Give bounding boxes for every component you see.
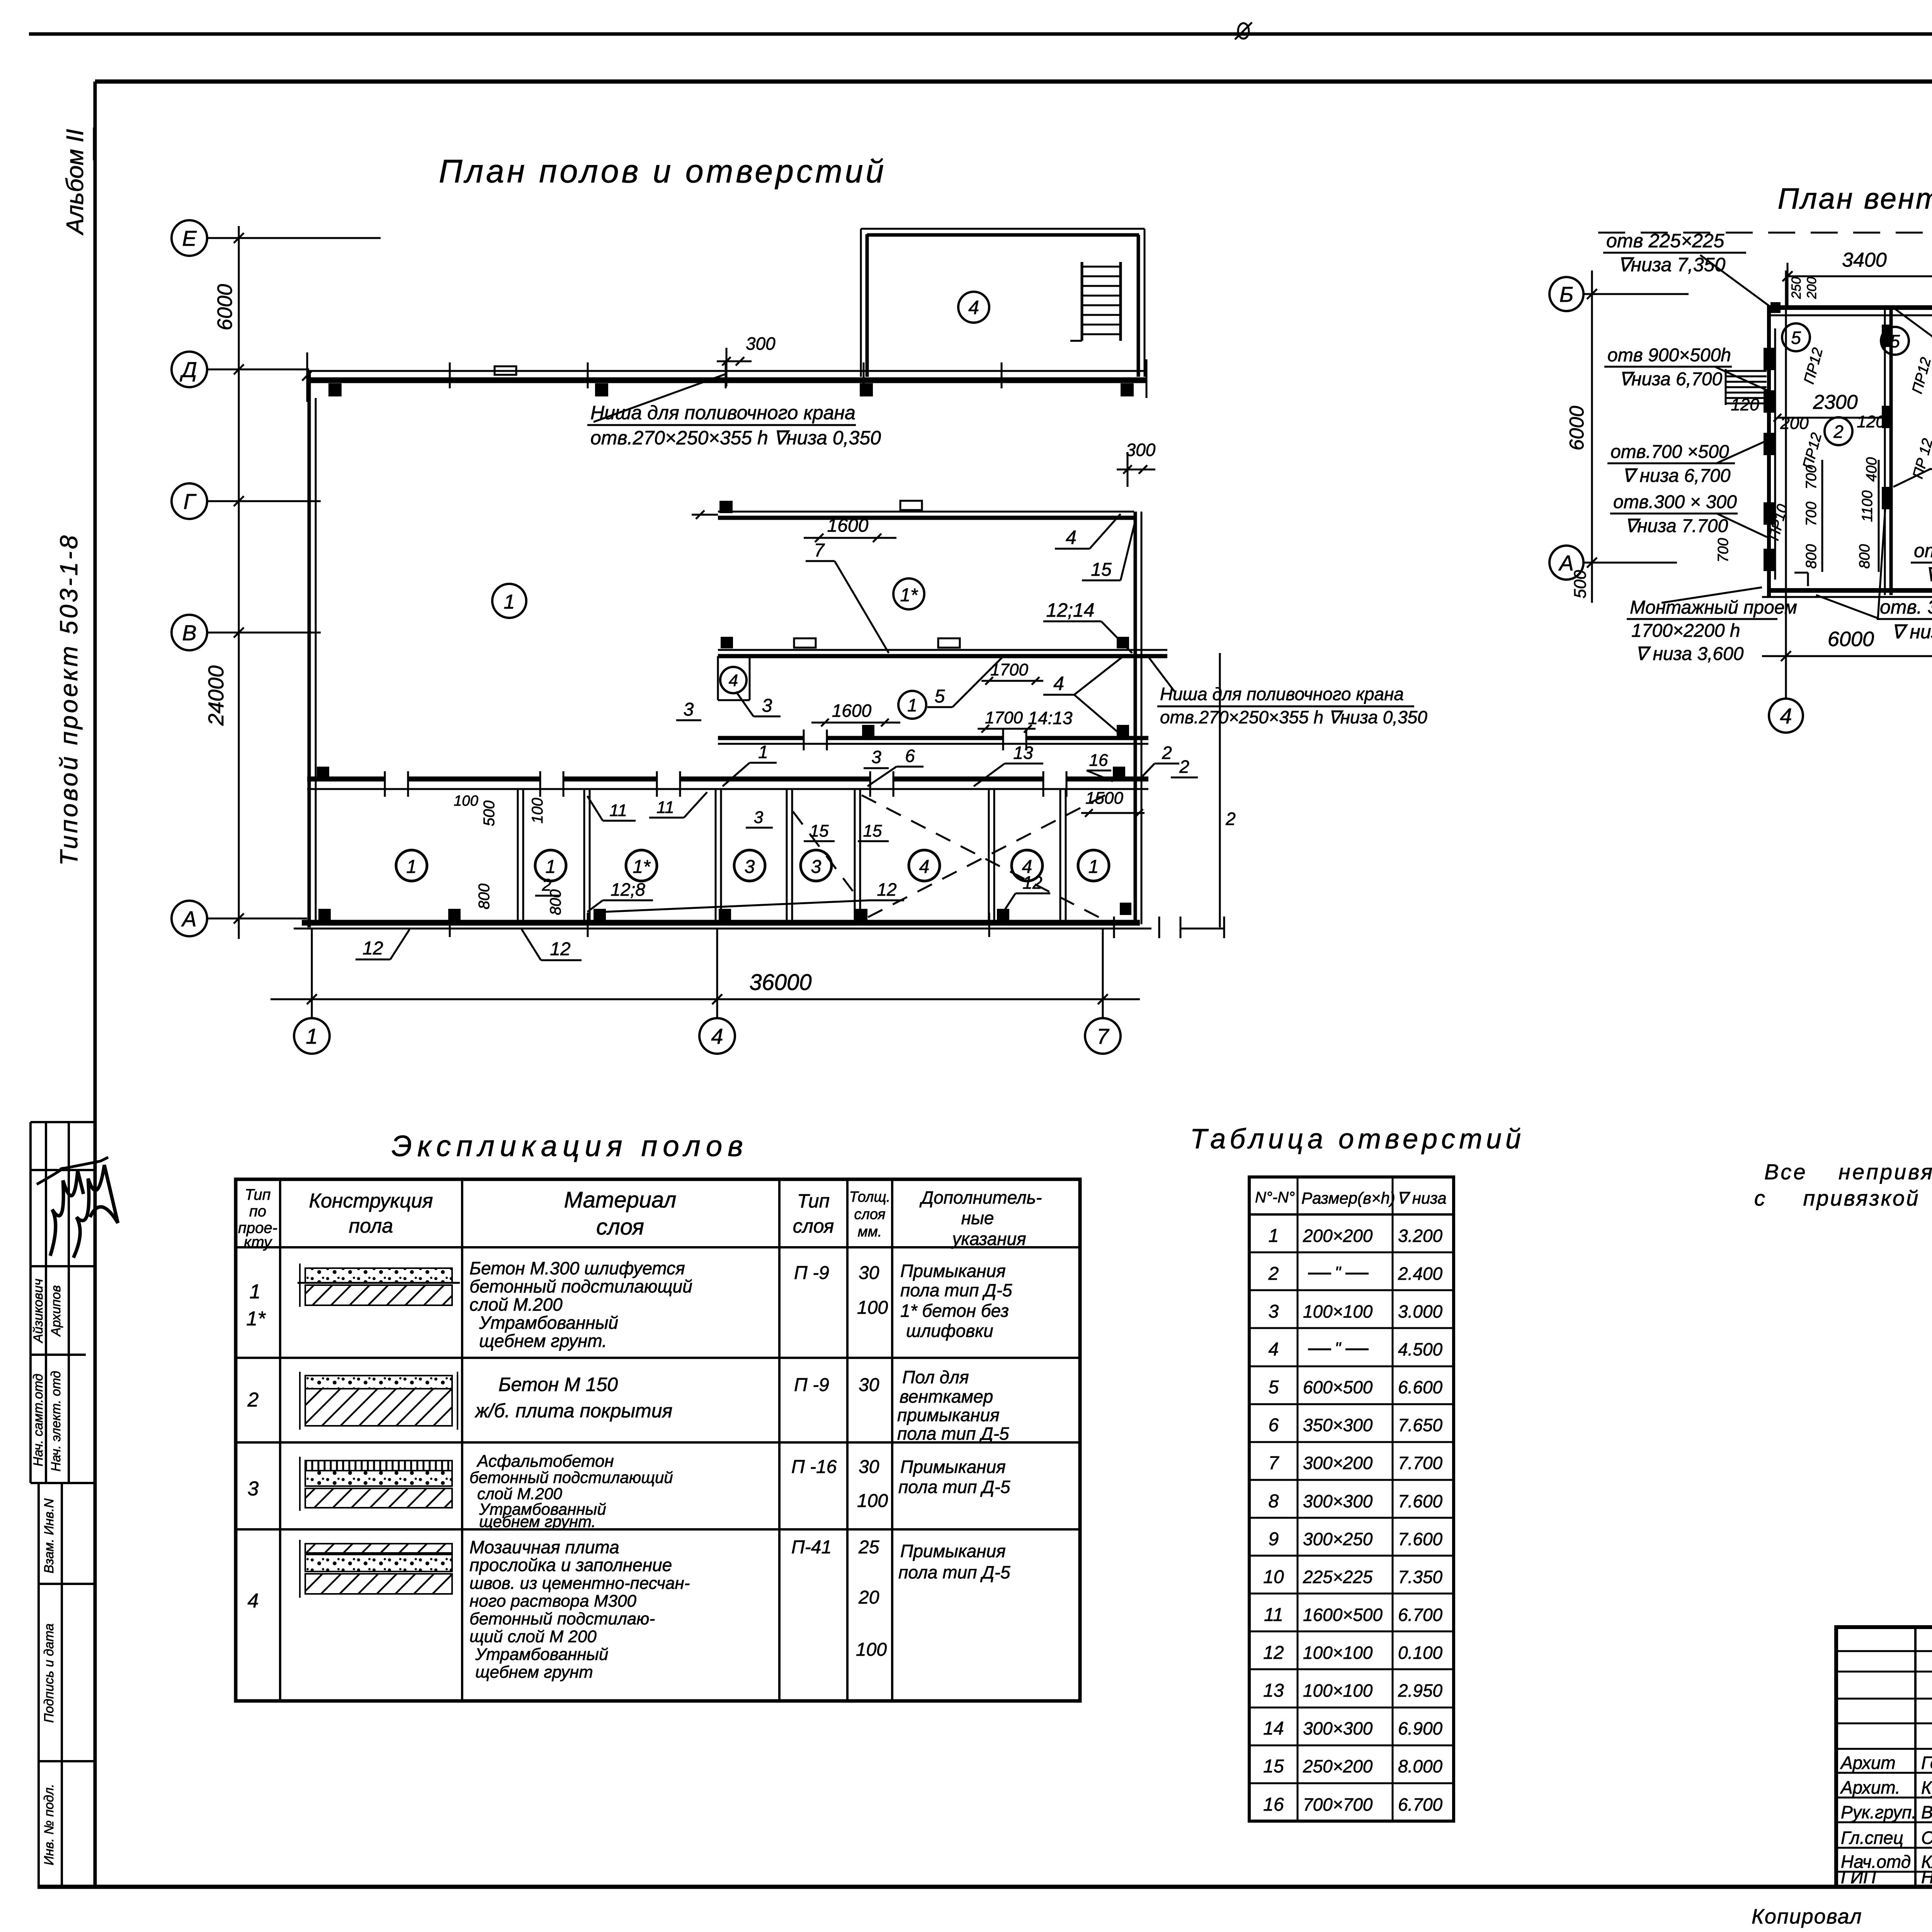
svg-text:щебнем грунт.: щебнем грунт.	[479, 1512, 596, 1531]
svg-text:30: 30	[859, 1375, 879, 1395]
svg-text:Дополнитель-: Дополнитель-	[919, 1187, 1042, 1207]
svg-text:100: 100	[857, 1491, 888, 1511]
svg-text:100: 100	[856, 1639, 887, 1660]
svg-text:100×100: 100×100	[1303, 1301, 1373, 1321]
louver/stairs hatch left	[1726, 370, 1767, 372]
svg-text:4: 4	[1269, 1339, 1279, 1360]
svg-text:Д: Д	[179, 357, 197, 382]
svg-text:Инв. № подл.: Инв. № подл.	[42, 1784, 56, 1866]
svg-text:Рук.груп.: Рук.груп.	[1841, 1802, 1917, 1822]
svg-text:6000: 6000	[1566, 406, 1588, 451]
svg-text:700: 700	[1715, 538, 1731, 562]
wall left along axis 1	[308, 372, 311, 927]
svg-text:Утрамбованный: Утрамбованный	[479, 1313, 618, 1333]
explication table frame	[236, 1179, 1080, 1701]
svg-text:300×300: 300×300	[1303, 1491, 1373, 1511]
vent vertical dim line	[1591, 270, 1593, 603]
A wall right extension segments	[1180, 928, 1224, 930]
svg-text:24000: 24000	[204, 665, 228, 726]
svg-text:П -9: П -9	[794, 1263, 829, 1283]
svg-text:2.950: 2.950	[1398, 1680, 1443, 1701]
svg-text:прослойка и заполнение: прослойка и заполнение	[469, 1555, 672, 1575]
svg-text:250: 250	[1789, 277, 1804, 299]
svg-text:4.500: 4.500	[1398, 1339, 1443, 1359]
svg-text:∇ низа: ∇ низа	[1397, 1189, 1447, 1207]
svg-text:пола тип Д-5: пола тип Д-5	[897, 1423, 1009, 1444]
svg-text:Типовой проект 503-1-8: Типовой проект 503-1-8	[55, 533, 83, 866]
svg-text:2: 2	[1179, 757, 1189, 777]
5 circles	[1782, 323, 1810, 351]
svg-text:7: 7	[1269, 1453, 1280, 1473]
sheet top border line	[29, 32, 1932, 36]
svg-text:отв.270×250×355 h ∇низа 0,350: отв.270×250×355 h ∇низа 0,350	[590, 427, 881, 449]
vent axis 4	[1769, 699, 1803, 733]
svg-text:4: 4	[711, 1024, 723, 1048]
svg-text:∇ низа 7.600: ∇ низа 7.600	[1891, 621, 1932, 643]
svg-text:отв. 350 ×300h: отв. 350 ×300h	[1880, 596, 1932, 618]
svg-text:ʺ: ʺ	[1335, 1263, 1342, 1282]
svg-text:венткамер: венткамер	[900, 1386, 993, 1406]
axis Д	[172, 352, 207, 387]
svg-text:1*: 1*	[246, 1308, 266, 1330]
svg-text:Пол для: Пол для	[902, 1367, 969, 1387]
wall axis А	[302, 920, 1140, 926]
svg-text:7.650: 7.650	[1398, 1415, 1443, 1435]
main frame bottom	[37, 1885, 1932, 1889]
svg-text:16: 16	[1089, 751, 1108, 770]
svg-text:12: 12	[1022, 872, 1042, 893]
svg-text:Бетон М 150: Бетон М 150	[498, 1374, 618, 1395]
svg-text:7: 7	[814, 540, 825, 561]
svg-text:3: 3	[248, 1478, 259, 1500]
svg-text:Ниша для поливочного крана: Ниша для поливочного крана	[590, 402, 855, 423]
svg-text:300×300: 300×300	[1303, 1718, 1373, 1738]
axis В	[172, 615, 207, 650]
svg-text:швов. из цементно-песчан-: швов. из цементно-песчан-	[469, 1574, 690, 1593]
svg-text:Все непривязанные проемы и отв: Все непривязанные проемы и отверстия счи…	[1764, 1160, 1932, 1184]
wall axis Г	[718, 511, 1134, 513]
svg-text:Курочкин: Курочкин	[1921, 1777, 1932, 1798]
svg-text:∇низа 7,350: ∇низа 7,350	[1618, 254, 1725, 276]
svg-text:30: 30	[859, 1457, 879, 1477]
room 4 enclosure top right	[860, 229, 862, 377]
svg-text:Б: Б	[1560, 282, 1573, 306]
vertical dimension line left	[238, 226, 240, 939]
svg-text:Архит.: Архит.	[1840, 1777, 1900, 1798]
svg-text:Примыкания: Примыкания	[900, 1457, 1006, 1477]
svg-text:Г: Г	[184, 489, 197, 514]
room 4 label circle	[958, 292, 989, 323]
svg-text:9: 9	[1269, 1529, 1279, 1549]
svg-text:4: 4	[919, 857, 930, 877]
svg-text:слоя: слоя	[596, 1214, 644, 1240]
svg-text:11: 11	[1264, 1605, 1283, 1625]
svg-text:15: 15	[1091, 560, 1112, 580]
holes table frame	[1249, 1177, 1454, 1821]
svg-text:7: 7	[1097, 1024, 1109, 1048]
svg-text:3: 3	[871, 747, 881, 767]
svg-text:П -9: П -9	[794, 1375, 829, 1395]
svg-text:2: 2	[1225, 809, 1236, 829]
svg-text:100: 100	[454, 793, 478, 809]
svg-text:4: 4	[1780, 704, 1792, 728]
svg-text:120: 120	[1857, 412, 1885, 431]
room 1* circle	[893, 578, 924, 609]
svg-text:1* бетон без: 1* бетон без	[900, 1301, 1009, 1321]
svg-text:В: В	[182, 621, 196, 645]
svg-text:5: 5	[1269, 1377, 1279, 1398]
dashed diagonals	[862, 795, 1105, 920]
svg-text:15: 15	[1263, 1756, 1284, 1777]
svg-text:6000: 6000	[213, 284, 236, 330]
title block outer	[1836, 1627, 1932, 1887]
svg-text:ГИП: ГИП	[1841, 1867, 1876, 1887]
svg-text:∇низа 7.700: ∇низа 7.700	[1625, 516, 1728, 536]
svg-text:Альбом II: Альбом II	[62, 129, 88, 236]
svg-text:Тип: Тип	[797, 1190, 830, 1212]
svg-text:300: 300	[746, 333, 776, 354]
ladder symbol	[1081, 262, 1083, 341]
main frame top	[95, 80, 1932, 84]
svg-text:8.000: 8.000	[1398, 1756, 1443, 1776]
svg-text:8: 8	[1269, 1491, 1279, 1512]
svg-text:12: 12	[877, 879, 896, 900]
svg-text:с привязкой „100“ от ближайшей: с привязкой „100“ от ближайшей стены или…	[1754, 1186, 1932, 1210]
svg-text:отв 225×225: отв 225×225	[1606, 230, 1725, 252]
svg-text:3: 3	[684, 699, 694, 720]
svg-text:12: 12	[362, 938, 383, 959]
svg-text:слоя: слоя	[854, 1206, 885, 1223]
svg-text:∇низа 7,275: ∇низа 7,275	[1925, 564, 1932, 585]
svg-text:слоя: слоя	[793, 1215, 834, 1237]
svg-text:30: 30	[859, 1263, 879, 1283]
svg-text:по: по	[249, 1203, 266, 1220]
svg-text:14:13: 14:13	[1028, 708, 1073, 728]
svg-text:Взам. Инв.N: Взам. Инв.N	[42, 1498, 56, 1573]
svg-text:Копировал: Копировал	[1752, 1905, 1862, 1928]
vent dim small lines	[1821, 460, 1823, 572]
svg-text:бетонный подстилающий: бетонный подстилающий	[469, 1276, 692, 1296]
svg-text:2: 2	[542, 876, 551, 895]
svg-text:15: 15	[810, 821, 829, 840]
svg-text:Подпись и дата: Подпись и дата	[42, 1623, 56, 1723]
svg-text:6.900: 6.900	[1398, 1718, 1443, 1738]
small room 4 circle	[720, 667, 747, 693]
right end wall	[1134, 512, 1137, 924]
svg-text:300×200: 300×200	[1303, 1453, 1373, 1473]
svg-text:Материал: Материал	[564, 1187, 677, 1213]
svg-text:пола тип Д-5: пола тип Д-5	[898, 1562, 1010, 1582]
svg-text:пола тип Д-5: пола тип Д-5	[900, 1280, 1012, 1300]
svg-text:ные: ные	[961, 1208, 994, 1228]
svg-text:Нач. элект. отд: Нач. элект. отд	[49, 1371, 63, 1472]
svg-text:отв.270×250×355 h ∇низа 0,350: отв.270×250×355 h ∇низа 0,350	[1160, 707, 1427, 727]
svg-text:3: 3	[1269, 1301, 1279, 1322]
svg-text:План полов и отверстий: План полов и отверстий	[439, 153, 886, 189]
svg-text:указания: указания	[951, 1229, 1026, 1249]
columns on room row wall	[317, 767, 329, 779]
svg-text:Айзикович: Айзикович	[31, 1279, 46, 1344]
svg-text:36000: 36000	[749, 970, 811, 995]
svg-text:Конструкция: Конструкция	[309, 1190, 433, 1212]
vent interior wall	[1884, 309, 1886, 595]
vent top wall	[1767, 305, 1932, 310]
svg-text:Ниша для поливочного крана: Ниша для поливочного крана	[1160, 684, 1404, 704]
title block signature table	[1914, 1627, 1917, 1887]
svg-text:Таблица отверстий: Таблица отверстий	[1190, 1124, 1525, 1155]
svg-text:200: 200	[1804, 277, 1819, 299]
svg-text:Монтажный проем: Монтажный проем	[1630, 597, 1797, 618]
margin signatures squiggles	[50, 1171, 83, 1256]
svg-text:щий слой М 200: щий слой М 200	[469, 1627, 597, 1646]
wall axis Д	[307, 370, 1146, 372]
margin stamp group: Взам/Подпись/Инв	[37, 1483, 40, 1887]
svg-text:ж/б. плита покрытия: ж/б. плита покрытия	[474, 1400, 672, 1422]
svg-text:4: 4	[1066, 527, 1077, 548]
svg-text:3: 3	[754, 808, 764, 827]
svg-text:0.100: 0.100	[1398, 1643, 1443, 1663]
svg-text:7.600: 7.600	[1398, 1491, 1443, 1511]
svg-text:4: 4	[248, 1590, 259, 1612]
axis 4	[699, 1018, 735, 1054]
svg-text:10: 10	[1263, 1567, 1284, 1587]
svg-text:кту: кту	[244, 1234, 273, 1251]
svg-text:отв 900×500h: отв 900×500h	[1607, 345, 1731, 366]
svg-text:25: 25	[858, 1537, 879, 1558]
svg-text:бетонный подстилающий: бетонный подстилающий	[469, 1468, 673, 1486]
wall corridor bottom (x 1858-2972)	[718, 736, 804, 740]
svg-text:600×500: 600×500	[1303, 1377, 1373, 1397]
svg-text:120: 120	[1731, 395, 1759, 414]
svg-text:100×100: 100×100	[1303, 1643, 1373, 1663]
svg-text:2300: 2300	[1813, 391, 1858, 413]
vent axis А	[1549, 546, 1583, 580]
wall room row top (door wall)	[307, 777, 385, 782]
svg-text:3: 3	[745, 857, 755, 877]
svg-text:1*: 1*	[900, 585, 918, 605]
svg-text:2: 2	[1833, 422, 1844, 442]
svg-text:20: 20	[858, 1587, 879, 1608]
center fold mark phi	[1238, 23, 1249, 39]
svg-text:4: 4	[729, 671, 738, 690]
window marks on walls	[900, 501, 922, 510]
svg-text:1: 1	[758, 742, 768, 762]
room 2 circles	[1825, 417, 1852, 445]
svg-text:ʺ: ʺ	[1335, 1339, 1342, 1358]
main frame left	[94, 82, 97, 1887]
svg-text:6.700: 6.700	[1398, 1605, 1443, 1625]
svg-text:1: 1	[1269, 1226, 1279, 1246]
svg-text:1100: 1100	[1859, 490, 1876, 522]
dashed line under title	[1598, 232, 1932, 234]
svg-text:3: 3	[811, 857, 821, 877]
svg-text:5: 5	[1890, 331, 1900, 351]
svg-text:Никитин: Никитин	[1921, 1867, 1932, 1887]
svg-text:1700: 1700	[990, 660, 1028, 679]
svg-text:бетонный подстилаю-: бетонный подстилаю-	[469, 1609, 655, 1628]
svg-text:14: 14	[1263, 1718, 1284, 1739]
vent bottom wall	[1767, 588, 1932, 593]
svg-text:4: 4	[968, 297, 979, 318]
svg-text:∇низа 6,700: ∇низа 6,700	[1619, 369, 1722, 389]
svg-text:пола: пола	[349, 1215, 393, 1237]
svg-text:1: 1	[504, 591, 515, 613]
svg-text:Размер(в×h): Размер(в×h)	[1301, 1189, 1395, 1207]
svg-text:1: 1	[1088, 857, 1099, 877]
svg-text:12: 12	[550, 939, 570, 959]
svg-text:2: 2	[1162, 743, 1172, 763]
svg-text:13: 13	[1263, 1680, 1284, 1701]
svg-text:350×300: 350×300	[1303, 1415, 1373, 1435]
room circles bottom row	[396, 850, 427, 881]
svg-text:пола тип Д-5: пола тип Д-5	[898, 1477, 1010, 1497]
svg-text:шлифовки: шлифовки	[906, 1321, 993, 1341]
svg-text:П -16: П -16	[791, 1457, 837, 1477]
svg-text:4: 4	[1053, 673, 1064, 694]
svg-text:11: 11	[609, 801, 627, 820]
room 1 big circle	[492, 584, 526, 618]
svg-text:1: 1	[306, 1024, 318, 1048]
svg-text:ного раствора М300: ного раствора М300	[469, 1592, 636, 1611]
svg-text:Утрамбованный: Утрамбованный	[475, 1645, 608, 1664]
svg-text:200: 200	[1780, 414, 1809, 433]
svg-text:100×100: 100×100	[1303, 1680, 1373, 1701]
svg-text:1700×2200 h: 1700×2200 h	[1631, 621, 1740, 641]
svg-text:Архипов: Архипов	[49, 1285, 63, 1337]
svg-text:Архит: Архит	[1840, 1753, 1896, 1773]
svg-text:отв.300 × 300: отв.300 × 300	[1613, 492, 1737, 512]
vent axis Б	[1549, 277, 1583, 311]
svg-text:500: 500	[1571, 570, 1590, 599]
svg-text:700×700: 700×700	[1303, 1794, 1373, 1815]
svg-text:Асфальтобетон: Асфальтобетон	[476, 1452, 614, 1471]
svg-text:1600×500: 1600×500	[1303, 1605, 1383, 1625]
svg-text:1*: 1*	[633, 857, 651, 877]
svg-text:1: 1	[907, 695, 917, 715]
svg-text:Гл.спец: Гл.спец	[1841, 1828, 1903, 1848]
svg-text:700: 700	[1803, 465, 1820, 489]
svg-text:1700: 1700	[985, 708, 1023, 727]
svg-text:800: 800	[476, 884, 493, 910]
svg-text:Примыкания: Примыкания	[900, 1261, 1006, 1281]
svg-text:16: 16	[1263, 1794, 1284, 1815]
svg-text:300×250: 300×250	[1303, 1529, 1373, 1549]
svg-text:6: 6	[905, 746, 915, 766]
svg-text:мм.: мм.	[858, 1224, 882, 1240]
svg-text:5: 5	[1791, 328, 1801, 348]
svg-text:2.400: 2.400	[1398, 1264, 1443, 1284]
svg-text:5: 5	[935, 686, 945, 707]
svg-text:слой М.200: слой М.200	[469, 1294, 563, 1315]
svg-text:1: 1	[250, 1281, 261, 1303]
wall end marks Д wall	[306, 352, 308, 402]
svg-text:щебнем грунт.: щебнем грунт.	[479, 1331, 607, 1351]
room partitions bottom row	[517, 789, 519, 923]
svg-text:3: 3	[762, 696, 772, 716]
svg-text:100: 100	[529, 798, 546, 824]
svg-text:6.700: 6.700	[1398, 1794, 1443, 1815]
svg-text:1500: 1500	[1085, 789, 1123, 808]
svg-text:7.350: 7.350	[1398, 1567, 1443, 1587]
svg-text:1: 1	[406, 857, 417, 877]
axis 1	[294, 1018, 330, 1054]
vent left wall	[1767, 305, 1771, 597]
svg-text:1600: 1600	[832, 701, 872, 721]
svg-text:Тип: Тип	[245, 1186, 270, 1203]
svg-text:1: 1	[546, 857, 556, 877]
svg-text:Экспликация полов: Экспликация полов	[391, 1130, 748, 1163]
small stub bottom-left	[1794, 572, 1808, 574]
svg-text:800: 800	[1803, 544, 1820, 568]
svg-text:∇ низа 6,700: ∇ низа 6,700	[1622, 466, 1731, 486]
svg-text:11: 11	[656, 798, 674, 817]
svg-text:отв.700 ×500: отв.700 ×500	[1611, 442, 1729, 462]
svg-text:3.000: 3.000	[1398, 1301, 1443, 1321]
svg-text:щебнем грунт: щебнем грунт	[475, 1663, 593, 1682]
svg-text:Серебров: Серебров	[1921, 1828, 1932, 1848]
svg-text:800: 800	[1857, 544, 1873, 568]
svg-text:2: 2	[1268, 1264, 1279, 1284]
svg-text:100: 100	[857, 1298, 888, 1318]
svg-text:1600: 1600	[827, 515, 869, 536]
svg-text:∇ низа 3,600: ∇ низа 3,600	[1635, 644, 1744, 664]
svg-text:400: 400	[1864, 457, 1880, 481]
wall corridor upper (В)	[718, 649, 1167, 651]
svg-text:6.600: 6.600	[1398, 1377, 1443, 1397]
door opening ticks on room row wall	[384, 771, 386, 797]
axis Е	[172, 220, 207, 256]
svg-text:Толщ.: Толщ.	[849, 1189, 891, 1205]
svg-text:7.600: 7.600	[1398, 1529, 1443, 1549]
svg-text:Бетон М.300 шлифуется: Бетон М.300 шлифуется	[469, 1258, 685, 1278]
svg-text:Нач. самт.отд: Нач. самт.отд	[31, 1374, 46, 1466]
bottom dimension line 36000	[270, 998, 1140, 1000]
svg-text:6000: 6000	[1828, 628, 1874, 651]
svg-text:300: 300	[1126, 440, 1156, 460]
corridor room 1 circle	[898, 691, 926, 719]
svg-text:А: А	[181, 906, 196, 931]
svg-text:N°-N°: N°-N°	[1255, 1189, 1295, 1206]
svg-text:отв.325×325h: отв.325×325h	[1914, 540, 1932, 561]
svg-text:2: 2	[247, 1389, 259, 1411]
svg-text:3.200: 3.200	[1398, 1226, 1443, 1246]
svg-text:примыкания: примыкания	[897, 1405, 1000, 1425]
svg-text:12: 12	[1263, 1643, 1284, 1663]
svg-text:225×225: 225×225	[1303, 1567, 1373, 1587]
svg-text:Власовская: Власовская	[1921, 1802, 1932, 1822]
svg-text:12;8: 12;8	[611, 879, 645, 900]
svg-text:Примыкания: Примыкания	[900, 1541, 1006, 1561]
margin stamp group: согласования	[29, 1122, 32, 1483]
axis А	[172, 901, 207, 936]
svg-text:700: 700	[1803, 502, 1820, 526]
svg-text:Мозаичная плита: Мозаичная плита	[469, 1537, 619, 1557]
axis Г	[172, 483, 207, 519]
svg-text:6: 6	[1269, 1415, 1279, 1435]
svg-text:500: 500	[481, 801, 498, 827]
right edge dim line	[1219, 653, 1221, 927]
svg-text:7.700: 7.700	[1398, 1453, 1443, 1473]
svg-text:250×200: 250×200	[1303, 1756, 1373, 1776]
vent bottom dim line	[1762, 655, 1932, 657]
svg-text:План венткамеры на отм. 3.6: План венткамеры на отм. 3.600	[1778, 182, 1932, 215]
svg-text:Геласимова: Геласимова	[1921, 1753, 1932, 1773]
svg-text:П-41: П-41	[791, 1537, 832, 1558]
axis 7	[1085, 1018, 1121, 1054]
columns on wall Д	[328, 383, 342, 396]
svg-text:Е: Е	[182, 226, 197, 250]
svg-text:15: 15	[863, 821, 882, 840]
